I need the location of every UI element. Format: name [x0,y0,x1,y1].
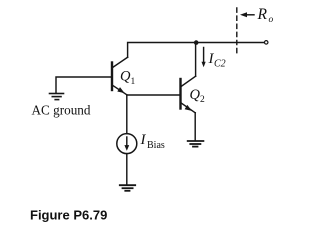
svg-text:Figure P6.79: Figure P6.79 [30,208,107,223]
wire Q1 emitter node to Q2 base [127,94,180,96]
wire Q2 collector up to node A [195,43,197,77]
wire top rail from Q1 collector to output terminal [128,43,265,58]
svg-text:Bias: Bias [147,140,165,151]
wire Q1 base to AC ground [56,77,112,93]
svg-text:1: 1 [131,77,136,87]
svg-text:Q: Q [120,69,131,85]
node A collector junction dot [194,40,199,45]
wire current source to ground [126,154,128,185]
output terminal open circle [264,41,268,45]
ground below Q2 [188,141,204,147]
svg-text:Q: Q [190,87,201,103]
svg-text:2: 2 [200,95,205,105]
wire Q2 emitter down to ground [194,113,196,140]
arrow pointing left at Ro boundary [240,12,254,17]
svg-text:o: o [269,15,274,25]
wire Q1 emitter node down to current source [126,95,128,134]
svg-text:C2: C2 [214,59,226,70]
transistor Q2 [181,76,196,113]
transistor Q1 [112,57,128,95]
ground below current source [120,185,135,191]
svg-text:R: R [257,6,268,23]
svg-text:AC ground: AC ground [32,103,91,118]
svg-text:I: I [140,132,147,148]
dashed boundary line for Ro measurement [236,8,238,54]
arrow I_C2 current direction [202,48,206,68]
current source I_Bias [117,134,137,154]
ground (AC ground) [50,94,64,100]
